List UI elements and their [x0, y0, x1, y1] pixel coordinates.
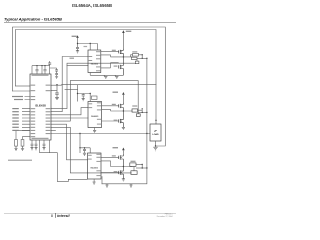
- svg-text:8: 8: [51, 214, 53, 218]
- node top bus c: [44, 65, 45, 66]
- title rule: [4, 21, 176, 24]
- wire VOUT rail: [102, 58, 147, 184]
- inductor L1: [133, 54, 139, 57]
- node vcc3: [84, 147, 85, 148]
- node load gnd: [155, 145, 156, 146]
- wire phase1 pin: [101, 55, 111, 57]
- ground Q4: [122, 127, 125, 129]
- wire top cap bus: [32, 65, 50, 67]
- label gate q4: [114, 120, 118, 121]
- controller U1 ISL6565B: [30, 74, 51, 140]
- node j1b: [142, 58, 143, 59]
- inductor L3: [130, 163, 136, 166]
- IC bottom pin stubs: [32, 140, 88, 182]
- node j1a: [142, 54, 143, 55]
- ground bottom pins: [30, 148, 45, 150]
- wire EN1 stub: [67, 65, 88, 67]
- svg-text:ISL6564A, ISL6565B: ISL6564A, ISL6565B: [72, 3, 112, 8]
- capacitor C-COMP: [21, 140, 24, 147]
- wire boot feed phase3: [80, 134, 90, 154]
- ground driver3: [93, 182, 96, 184]
- label gate q3: [112, 104, 116, 105]
- ground Q6: [122, 179, 125, 181]
- wire load gnd: [155, 141, 157, 146]
- node top bus b: [41, 65, 42, 66]
- driver U2 ISL6605: [88, 50, 101, 73]
- capacitor boot1: [76, 47, 79, 50]
- wire phase node 3: [111, 166, 133, 168]
- wire inner VIN rail: [16, 30, 157, 125]
- wire EN2 route: [51, 117, 88, 119]
- IC inside pin name smudges: [31, 75, 51, 139]
- resistor Risen1: [135, 61, 139, 64]
- node VIN3 arrow: [122, 148, 125, 151]
- footer rule: [4, 212, 176, 215]
- node j3b: [142, 167, 143, 168]
- wire isen blob link 3: [133, 166, 135, 171]
- transistor Q1 upper: [119, 48, 124, 57]
- wire cross link y89.7: [65, 89, 78, 91]
- wire driver3 gnd: [93, 179, 95, 182]
- resistor Rsen1: [131, 57, 137, 59]
- wire isen blob link 1: [136, 59, 138, 61]
- svg-text:µP: µP: [154, 130, 157, 132]
- wire lgate2: [102, 120, 119, 122]
- wire PWM2 route: [51, 108, 88, 115]
- label gate q1: [112, 50, 116, 51]
- svg-text:December 27, 2004: December 27, 2004: [157, 216, 173, 218]
- node j2b: [142, 112, 143, 113]
- wire lgate1: [101, 63, 119, 68]
- node vcc1: [90, 43, 91, 44]
- wire rail stub to IC pin PVCC: [13, 90, 31, 92]
- ground bus g2: [129, 184, 132, 187]
- ground boot1: [76, 51, 79, 53]
- label gate q6: [114, 171, 118, 172]
- node VSEN rail cross: [146, 133, 147, 134]
- wire rail stub to IC pin VCC: [16, 85, 31, 87]
- node j2c: [146, 112, 147, 113]
- node boot2: [77, 93, 78, 94]
- driver U3 ISL6605: [88, 102, 102, 128]
- node phase2: [123, 110, 124, 111]
- label L2 value: [132, 105, 137, 106]
- label +12V p2: [113, 92, 119, 93]
- node j1c: [146, 58, 147, 59]
- wire ugate2: [102, 105, 119, 107]
- wire boot feed phase2: [78, 85, 91, 102]
- capacitor boot3a: [83, 148, 86, 153]
- wire phase node 2: [111, 110, 133, 112]
- IC left pin labels: [12, 96, 23, 131]
- resistor R-FB: [15, 140, 18, 147]
- wire L1 in: [131, 55, 133, 57]
- wire bus stub to driver3: [101, 177, 103, 184]
- capacitor bottom c1: [31, 144, 46, 148]
- node j3a: [142, 164, 143, 165]
- IC top decoupling caps: [36, 66, 47, 71]
- wire VSEN line to load: [51, 133, 150, 135]
- wire boot feed phase1: [78, 38, 98, 50]
- label L3 value: [131, 161, 136, 162]
- wire left FB network a: [16, 130, 30, 139]
- capacitor on VDIFF line: [56, 85, 59, 98]
- capacitor VCC filter top: [48, 61, 58, 79]
- wire vin feed1: [122, 33, 124, 48]
- transistor Q6 lower: [119, 167, 124, 179]
- svg-text:ISL6605: ISL6605: [91, 63, 98, 65]
- label gate q5: [112, 155, 116, 156]
- svg-text:LOAD: LOAD: [152, 133, 159, 136]
- node load top: [155, 120, 156, 121]
- ground load: [153, 147, 157, 151]
- wire sense line 3: [136, 167, 147, 169]
- capacitor boot2a: [82, 94, 85, 99]
- note text bottom left: [8, 160, 32, 161]
- node j3c: [146, 167, 147, 168]
- node VIN1 arrow: [122, 30, 125, 33]
- label +12V boot1: [72, 36, 77, 37]
- wire bottom bus to col: [40, 152, 58, 154]
- footer separator: [54, 213, 57, 218]
- node VDIFF cap tap: [56, 84, 57, 85]
- ground bus1 a: [104, 75, 107, 78]
- wire long VDIFF line to VIN rail: [51, 84, 156, 87]
- wire ugate3: [101, 156, 119, 158]
- inductor L2: [132, 109, 138, 112]
- capacitor boot2b: [92, 96, 98, 99]
- node VIN2 arrow: [122, 92, 125, 95]
- label L1 value: [132, 51, 137, 52]
- driver2 pin smudges: [89, 102, 102, 124]
- resistor Risen3: [131, 171, 137, 175]
- wire ISEN3 route: [51, 127, 131, 173]
- node phase3: [123, 166, 124, 167]
- ground VDIFF cap: [55, 97, 58, 99]
- wire gnd bus phase1: [90, 74, 123, 76]
- ground FB: [14, 146, 24, 151]
- wire PWM1 route: [51, 57, 88, 112]
- ground boot3a: [83, 153, 86, 155]
- wire sense line 2: [138, 111, 147, 113]
- wire lgate3: [101, 172, 119, 174]
- svg-text:ISL6605: ISL6605: [91, 167, 98, 169]
- resistor Risen2: [136, 114, 140, 117]
- label +12V p3: [113, 147, 119, 148]
- node vsen boot3 tap: [79, 133, 80, 134]
- wire L3 to rail: [136, 164, 142, 168]
- wire IC right stub y130: [51, 129, 56, 131]
- ground bus1 b: [115, 75, 118, 78]
- svg-text:ISL6565B: ISL6565B: [35, 105, 46, 108]
- wire ISEN1 route: [51, 63, 135, 108]
- wire driver2 gnd: [94, 128, 96, 131]
- transistor Q3 upper: [119, 102, 124, 111]
- wire phase2 pin: [102, 109, 111, 111]
- wire IC right stub y90: [51, 90, 57, 92]
- ground bus symbols: [105, 184, 132, 187]
- IC left pin stubs: [16, 97, 30, 140]
- label pwm1: [70, 58, 75, 59]
- node vcc2: [90, 93, 91, 94]
- node phase1: [123, 56, 124, 57]
- svg-text:Typical Application - ISL6565B: Typical Application - ISL6565B: [4, 17, 62, 22]
- wire vin feed2: [122, 95, 124, 103]
- driver1 pin smudges: [89, 51, 101, 71]
- svg-text:ISL6605: ISL6605: [91, 116, 98, 118]
- node boot1: [77, 43, 78, 44]
- node j2a: [142, 108, 143, 109]
- svg-text:intersil: intersil: [57, 214, 70, 218]
- ground boot2a: [82, 99, 85, 101]
- wire sense line 1: [137, 57, 147, 59]
- wire L2 to rail: [138, 110, 143, 112]
- transistor Q4 lower: [119, 111, 124, 127]
- wire ISEN2 route: [51, 81, 138, 122]
- wire PWM3 route: [51, 124, 88, 160]
- transistor Q5 upper: [119, 154, 124, 167]
- load box uP LOAD: [150, 124, 161, 141]
- wire left FB network b: [23, 137, 31, 140]
- wire L1 to rail: [139, 55, 143, 59]
- wire col to driver3 en: [58, 153, 88, 182]
- label boot cap1: [84, 46, 88, 47]
- node top bus a: [36, 65, 37, 66]
- IC top pin stubs: [32, 66, 45, 74]
- wire driver1 gnd: [89, 73, 91, 76]
- ground driver2: [93, 130, 96, 132]
- label q2: [114, 66, 118, 67]
- wire phase node 1: [111, 56, 133, 58]
- wire ugate1: [101, 51, 119, 53]
- driver3 pin smudges: [88, 154, 101, 176]
- wire vin feed3: [122, 150, 124, 154]
- node +12V arrow phase1: [76, 35, 79, 38]
- wire phase3 pin: [101, 161, 111, 167]
- node boot3: [79, 147, 80, 148]
- label +12V p1: [126, 31, 132, 32]
- ground bus g1: [105, 184, 108, 187]
- transistor Q2 lower: [119, 57, 124, 75]
- driver U4 ISL6605: [88, 153, 102, 179]
- wire outer +12V rail: [13, 27, 166, 146]
